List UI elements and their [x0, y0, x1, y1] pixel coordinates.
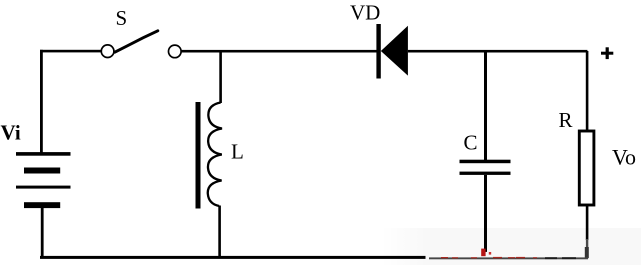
wire: capacitor branch upper lead — [484, 51, 487, 161]
switch S left contact circle — [101, 45, 114, 58]
battery Vi plate 2 (short thick) — [24, 168, 60, 174]
red artifact small dot right of junction — [489, 252, 491, 255]
red artifact dot at capacitor bottom junction — [481, 249, 485, 257]
switch S blade — [115, 31, 158, 52]
dark blob at bottom right corner — [585, 247, 589, 258]
dark patches on grey rail — [545, 257, 576, 259]
capacitor C top plate — [460, 160, 511, 164]
wire: right rail upper (corner to resistor) — [586, 51, 589, 130]
battery Vi plate 1 (long) — [16, 152, 71, 156]
battery Vi plate 4 (short thick) — [24, 202, 60, 208]
wire: capacitor lower lead — [484, 175, 487, 252]
svg-text:L: L — [231, 140, 244, 164]
wire: top rail left segment — [40, 50, 102, 53]
wire: left rail bottom segment — [41, 208, 44, 258]
label plus sign vertical stroke — [606, 47, 609, 59]
svg-text:Vo: Vo — [612, 145, 636, 170]
faint artifact band bottom right — [380, 228, 641, 265]
svg-text:R: R — [559, 108, 573, 132]
wire: inductor bottom lead to bottom rail — [218, 206, 221, 258]
inductor L core bar — [196, 102, 201, 209]
svg-text:VD: VD — [350, 1, 380, 25]
svg-text:Vi: Vi — [1, 121, 21, 145]
red artifact speckles on bottom rail — [441, 257, 537, 259]
capacitor C bottom plate — [460, 172, 511, 175]
diode VD cathode bar — [376, 24, 380, 79]
wire: right rail lower grey part — [586, 239, 588, 259]
wire: right rail lower black part — [586, 205, 589, 240]
wire: left rail top segment — [40, 50, 43, 153]
wire: bottom rail black segment — [40, 256, 426, 259]
wire: bottom rail grey segment — [429, 257, 588, 259]
wire: top rail middle segment (switch to diode) — [181, 50, 376, 53]
diode VD triangle — [381, 26, 408, 76]
switch S right contact circle — [169, 45, 182, 58]
inductor L coil — [208, 103, 222, 207]
wire: inductor branch drop from top rail — [219, 51, 222, 103]
label plus sign horizontal stroke — [601, 52, 613, 55]
resistor R body — [579, 131, 594, 205]
wire: top rail right segment (diode to corner) — [408, 50, 588, 53]
svg-text:C: C — [464, 131, 478, 155]
battery Vi plate 3 (long) — [16, 186, 71, 189]
svg-text:S: S — [116, 6, 128, 30]
